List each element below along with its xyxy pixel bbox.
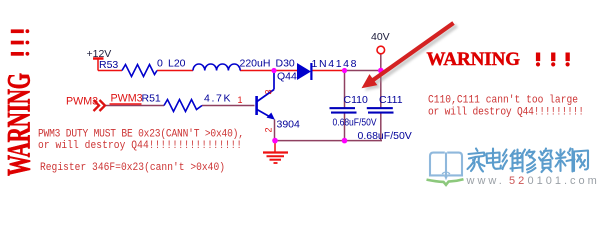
svg-text:www.: www.: [466, 175, 505, 187]
svg-text:PWM3: PWM3: [66, 96, 98, 108]
svg-text:Q44: Q44: [277, 71, 297, 83]
svg-text:WARNING: WARNING: [0, 73, 37, 176]
svg-text:C111: C111: [379, 94, 403, 106]
svg-text:220uH: 220uH: [240, 58, 271, 70]
svg-text:R51: R51: [142, 93, 161, 105]
svg-text:Register 346F=0x23(cann't >0x4: Register 346F=0x23(cann't >0x40): [40, 161, 225, 174]
svg-text:0.68uF/50V: 0.68uF/50V: [358, 130, 412, 142]
svg-text:L20: L20: [168, 58, 186, 70]
svg-text:0: 0: [157, 58, 163, 70]
svg-text:.com: .com: [564, 175, 600, 187]
svg-text:52: 52: [509, 175, 527, 187]
svg-text:0.68uF/50V: 0.68uF/50V: [333, 117, 377, 129]
svg-text:2: 2: [264, 127, 274, 132]
svg-text:C110: C110: [344, 94, 368, 106]
svg-text:R53: R53: [99, 59, 118, 71]
svg-text:or will destroy Q44!!!!!!!!!: or will destroy Q44!!!!!!!!!: [428, 106, 584, 119]
svg-text:or will destroy Q44!!!!!!!!!!!: or will destroy Q44!!!!!!!!!!!!!!!!: [38, 139, 242, 152]
svg-text:0101: 0101: [528, 175, 564, 187]
svg-text:1: 1: [238, 95, 243, 105]
svg-text:40V: 40V: [371, 31, 390, 43]
svg-text:D30: D30: [276, 58, 295, 70]
svg-text:4.7K: 4.7K: [204, 93, 231, 105]
svg-text:3904: 3904: [277, 119, 301, 131]
svg-text:PWM3: PWM3: [111, 93, 143, 105]
svg-text:3: 3: [264, 89, 274, 94]
svg-text:WARNING: WARNING: [427, 49, 521, 70]
